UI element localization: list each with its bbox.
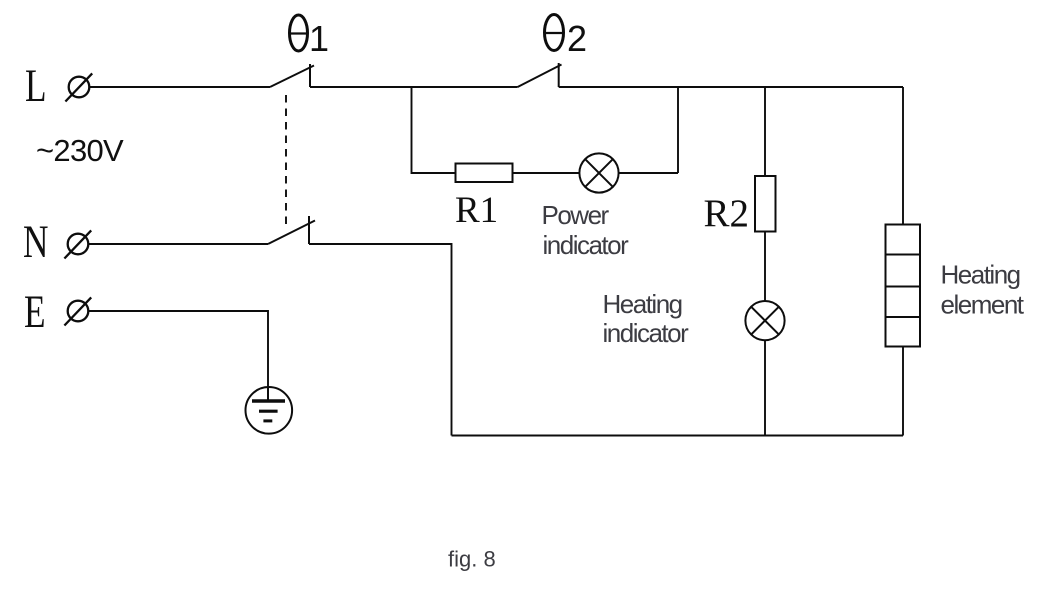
wire R1 branch left drop [412,87,456,173]
theta2 symbol [545,15,564,51]
switch theta2 blade [518,65,562,88]
switch theta1 contact [309,64,311,87]
terminal N [68,234,89,255]
svg-text:R1: R1 [455,190,498,231]
wire R2 branch drop [764,87,766,176]
svg-text:1: 1 [309,18,329,59]
wire R2 to lamp [764,232,766,302]
terminal L [69,77,90,98]
switch theta1 blade [270,66,314,88]
svg-text:N: N [23,215,48,267]
lamp heating indicator [745,301,784,340]
resistor R2 [755,176,776,232]
resistor R1 [456,164,513,183]
switch N blade [268,221,315,245]
wire lamp to bottom [764,340,766,435]
svg-text:fig. 8: fig. 8 [448,547,496,572]
wire R1 to lamp [513,172,580,174]
wire lamp to right riser [619,172,678,174]
svg-text:indicator: indicator [543,230,630,260]
wire top main right [559,86,903,88]
svg-text:Heating: Heating [603,289,682,319]
switch link dashed [285,95,287,228]
svg-text:~230V: ~230V [36,133,124,168]
wire L to switch [90,86,271,88]
wire heating element to bottom [902,347,904,436]
svg-text:E: E [24,285,46,337]
wire heating element drop [902,87,904,225]
theta1 symbol [290,15,308,51]
switch theta2 contact [558,63,560,87]
svg-text:Heating: Heating [941,260,1020,290]
svg-text:indicator: indicator [603,318,690,348]
wire top main left [310,86,518,88]
svg-text:R2: R2 [704,192,750,235]
wire R1 branch right riser [677,87,679,173]
wire bottom return [452,435,904,437]
lamp power indicator [579,153,618,192]
svg-text:L: L [25,59,47,111]
terminal E [68,301,89,322]
wire N to bottom corner [309,244,452,436]
switch N contact [308,216,310,244]
wire N to switch [89,243,269,245]
svg-text:2: 2 [567,18,587,59]
earth symbol [245,387,292,434]
heating element [886,225,921,347]
wire E to earth [89,311,269,387]
svg-text:element: element [941,290,1025,320]
svg-text:Power: Power [542,200,610,230]
